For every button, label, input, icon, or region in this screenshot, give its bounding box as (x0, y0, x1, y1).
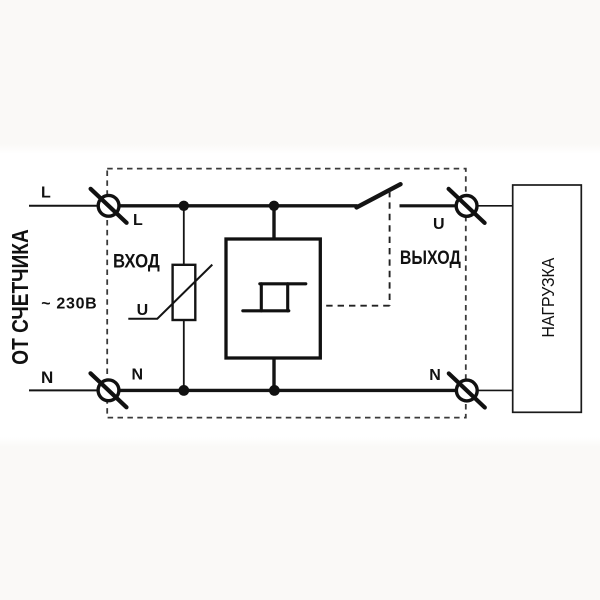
svg-text:N: N (41, 368, 53, 387)
svg-text:ОТ СЧЕТЧИКА: ОТ СЧЕТЧИКА (8, 229, 33, 364)
svg-text:L: L (41, 185, 51, 202)
svg-text:L: L (133, 212, 143, 229)
svg-text:ВЫХОД: ВЫХОД (400, 247, 461, 269)
svg-text:НАГРУЗКА: НАГРУЗКА (538, 257, 558, 337)
svg-text:ВХОД: ВХОД (113, 251, 160, 272)
svg-text:U: U (137, 302, 149, 319)
svg-text:U: U (433, 216, 445, 233)
svg-text:N: N (429, 367, 441, 384)
svg-text:~ 230В: ~ 230В (41, 296, 97, 313)
svg-text:N: N (132, 366, 144, 383)
